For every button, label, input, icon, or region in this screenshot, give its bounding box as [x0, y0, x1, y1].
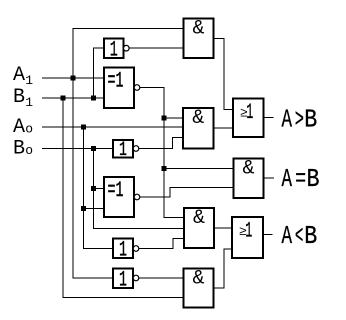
- wire AND1 output to OR1: [214, 39, 234, 110]
- AND gate U7 equality box: [234, 159, 264, 199]
- svg-text:&: &: [192, 18, 204, 41]
- junction B0 bus: [91, 146, 96, 151]
- svg-text:B: B: [307, 164, 320, 194]
- junction B0 to XNOR2: [91, 186, 96, 191]
- inverter U12 notA1 box: [113, 269, 133, 289]
- junction A1 bus: [71, 76, 76, 81]
- junction XNOR1 to AND2: [161, 116, 166, 121]
- XNOR U3 bubble: [134, 85, 140, 91]
- svg-text:B: B: [304, 105, 317, 135]
- svg-text:>: >: [295, 105, 304, 135]
- wire AND5 output to OR2: [214, 249, 233, 288]
- junction A0 bus: [81, 125, 86, 130]
- output label A greater B: [282, 105, 318, 135]
- inverter U12 bubble: [133, 275, 139, 281]
- svg-text:1: 1: [246, 100, 253, 125]
- svg-text:=: =: [295, 164, 306, 194]
- svg-text:A: A: [13, 116, 25, 139]
- inverter U11 bubble: [133, 246, 139, 252]
- junction B1 INV1 tap: [91, 96, 96, 101]
- XNOR gate U3 A1 xnor B1 box: [104, 68, 134, 109]
- AND gate U9 lower box: [184, 208, 214, 248]
- AND gate U1 A1.notB1 box: [184, 19, 214, 59]
- wire OR1 output stub: [264, 117, 274, 119]
- wire XNOR1 output bus down: [140, 88, 184, 218]
- svg-text:=1: =1: [108, 69, 124, 94]
- inverter U2 notB1 box: [104, 39, 124, 59]
- junction XNOR1 to AND4: [161, 166, 166, 171]
- wire XNOR1 tap to AND4: [164, 168, 234, 170]
- inverter U11 notA0 box: [113, 239, 133, 259]
- junction B1 bus: [61, 96, 66, 101]
- svg-text:1: 1: [119, 268, 127, 293]
- wire A0 tap to XNOR2 input: [84, 208, 105, 210]
- svg-text:B: B: [304, 221, 317, 251]
- XNOR gate U8 A0 xnor B0 box: [104, 177, 134, 217]
- wire B1 up to INV1 input: [94, 48, 105, 98]
- wire A0 input line to AND2: [42, 126, 183, 128]
- svg-text:1: 1: [119, 139, 127, 162]
- svg-text:B: B: [13, 86, 25, 109]
- wire AND3 output to OR2: [214, 227, 232, 229]
- svg-text:1: 1: [25, 95, 33, 110]
- svg-text:o: o: [25, 143, 33, 158]
- wire B0 tap to XNOR2 input: [94, 188, 105, 190]
- wire INV2 output step to AND2: [139, 138, 183, 149]
- wire INV4 output to AND5: [139, 277, 184, 279]
- inverter U5 notB0 box: [113, 140, 133, 158]
- svg-text:&: &: [192, 268, 204, 291]
- AND gate U13 bottom box: [184, 269, 214, 308]
- wire OR2 output stub: [263, 234, 273, 236]
- svg-text:1: 1: [25, 73, 33, 88]
- svg-text:=1: =1: [108, 178, 124, 203]
- inverter U5 bubble: [133, 146, 139, 152]
- wire A1 to AND1 top input: [73, 29, 184, 79]
- wire AND4 output stub: [264, 177, 275, 179]
- AND gate U4 middle box: [183, 108, 214, 149]
- svg-text:1: 1: [110, 38, 118, 63]
- wire B0 down to AND3: [94, 149, 185, 229]
- wire B1 down to AND5: [63, 98, 184, 298]
- svg-text:A: A: [13, 64, 25, 87]
- svg-text:1: 1: [119, 238, 127, 263]
- OR gate U10 A less B box: [232, 217, 263, 258]
- output label A equal B: [282, 164, 320, 194]
- svg-text:1: 1: [245, 219, 252, 244]
- wire A1 input line: [42, 77, 104, 79]
- inverter U2 bubble: [124, 45, 130, 51]
- svg-text:A: A: [282, 105, 293, 135]
- wire A1 down to INV4: [73, 78, 113, 278]
- svg-text:o: o: [25, 122, 33, 137]
- svg-text:<: <: [295, 221, 304, 251]
- wire XNOR1 tap to AND2: [164, 117, 183, 119]
- output label A less B: [282, 221, 318, 251]
- svg-text:B: B: [13, 138, 25, 161]
- wire XNOR2 output to AND4: [140, 188, 234, 198]
- wire INV3 output step to AND3: [139, 239, 184, 249]
- svg-text:&: &: [193, 207, 205, 230]
- svg-text:A: A: [282, 221, 293, 251]
- wire B1 input line: [42, 97, 104, 99]
- svg-text:A: A: [282, 164, 293, 194]
- junction A0 to XNOR2: [81, 206, 86, 211]
- wire B0 input line to INV2: [42, 148, 113, 150]
- wire AND2 output to OR1: [214, 127, 234, 129]
- wire A0 down to INV3: [84, 127, 114, 249]
- svg-text:&: &: [242, 158, 254, 181]
- svg-text:&: &: [192, 107, 204, 130]
- XNOR U8 bubble: [134, 194, 140, 200]
- OR gate U6 A greater B box: [233, 99, 264, 138]
- wire INV1 output to AND1: [129, 47, 183, 49]
